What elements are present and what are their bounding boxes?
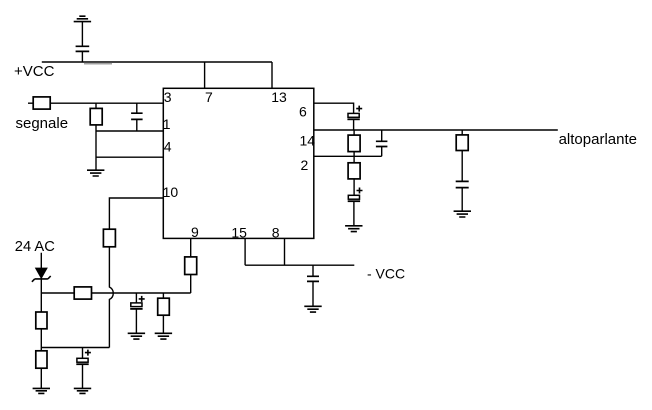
- wire pin9 chain: [190, 238, 192, 293]
- resistor R10: [348, 163, 360, 179]
- svg-text:15: 15: [231, 225, 247, 241]
- svg-text:1: 1: [163, 116, 171, 132]
- wire pin1: [96, 130, 163, 132]
- ground GND7: [304, 306, 321, 312]
- wire pin10 chain with hop: [109, 247, 113, 348]
- wire +VCC rail: [42, 61, 272, 63]
- wire 24AC vertical: [40, 253, 42, 389]
- ground GND5: [128, 333, 145, 339]
- resistor R8: [185, 257, 197, 275]
- svg-text:3: 3: [164, 89, 172, 105]
- svg-text:6: 6: [299, 104, 307, 120]
- wire -VCC line: [245, 264, 354, 266]
- wire pin3 input: [28, 102, 163, 104]
- resistor R7: [158, 293, 170, 333]
- svg-text:8: 8: [272, 225, 280, 241]
- resistor R1: [33, 97, 50, 109]
- ground GND8: [345, 226, 362, 232]
- resistor R6: [36, 351, 47, 368]
- wire supply line upper: [41, 292, 190, 294]
- wire pin7 stub: [204, 62, 206, 88]
- capacitor C2: [131, 103, 143, 131]
- wire pin13 stub: [271, 62, 273, 88]
- resistor R11 zobel: [456, 130, 468, 181]
- svg-text:7: 7: [205, 89, 213, 105]
- resistor R5: [36, 312, 47, 329]
- capacitor C9: [456, 181, 469, 211]
- ground GND6: [155, 333, 172, 339]
- wire pin14 output: [314, 129, 558, 131]
- wire gray artifact on rail: [84, 63, 112, 65]
- resistor R2: [90, 108, 102, 125]
- wire input divider vertical: [95, 103, 97, 170]
- wire pin8 stub: [284, 238, 286, 265]
- wire supply line lower: [41, 347, 109, 349]
- ground GND1 top inverted: [74, 16, 91, 21]
- svg-text:2: 2: [301, 157, 309, 173]
- wire pin10: [109, 198, 163, 229]
- wire pin4: [96, 156, 163, 158]
- svg-text:- VCC: - VCC: [367, 266, 405, 282]
- resistor R9: [348, 135, 360, 152]
- svg-text:24 AC: 24 AC: [15, 239, 55, 255]
- wire feedback chain vertical: [353, 130, 355, 226]
- wire top bypass vertical: [81, 22, 83, 62]
- ground GND9: [454, 211, 471, 217]
- capacitor C6 polarized: [347, 106, 362, 130]
- capacitor C8: [376, 130, 388, 156]
- svg-text:altoparlante: altoparlante: [559, 131, 637, 148]
- capacitor C4 polarized: [130, 293, 145, 333]
- svg-text:13: 13: [271, 89, 287, 105]
- svg-text:4: 4: [164, 139, 172, 155]
- wire pin2: [314, 155, 382, 157]
- svg-text:9: 9: [191, 224, 199, 240]
- svg-text:10: 10: [163, 184, 179, 200]
- wire pin6: [314, 103, 354, 113]
- ground GND3: [33, 388, 50, 393]
- resistor R3: [103, 229, 115, 247]
- capacitor C7 polarized: [348, 188, 363, 202]
- wire pin15 stub: [244, 238, 246, 265]
- ground GND4: [74, 388, 91, 393]
- zener diode D1: [32, 268, 51, 282]
- capacitor C1: [76, 46, 90, 51]
- svg-text:segnale: segnale: [16, 115, 69, 132]
- svg-text:+VCC: +VCC: [14, 63, 55, 80]
- resistor R4: [74, 287, 91, 299]
- op-amp IC U1: [163, 88, 313, 238]
- svg-text:14: 14: [300, 133, 316, 149]
- ground GND2: [87, 170, 104, 176]
- capacitor C5: [307, 265, 319, 306]
- capacitor C3 polarized: [76, 348, 91, 389]
